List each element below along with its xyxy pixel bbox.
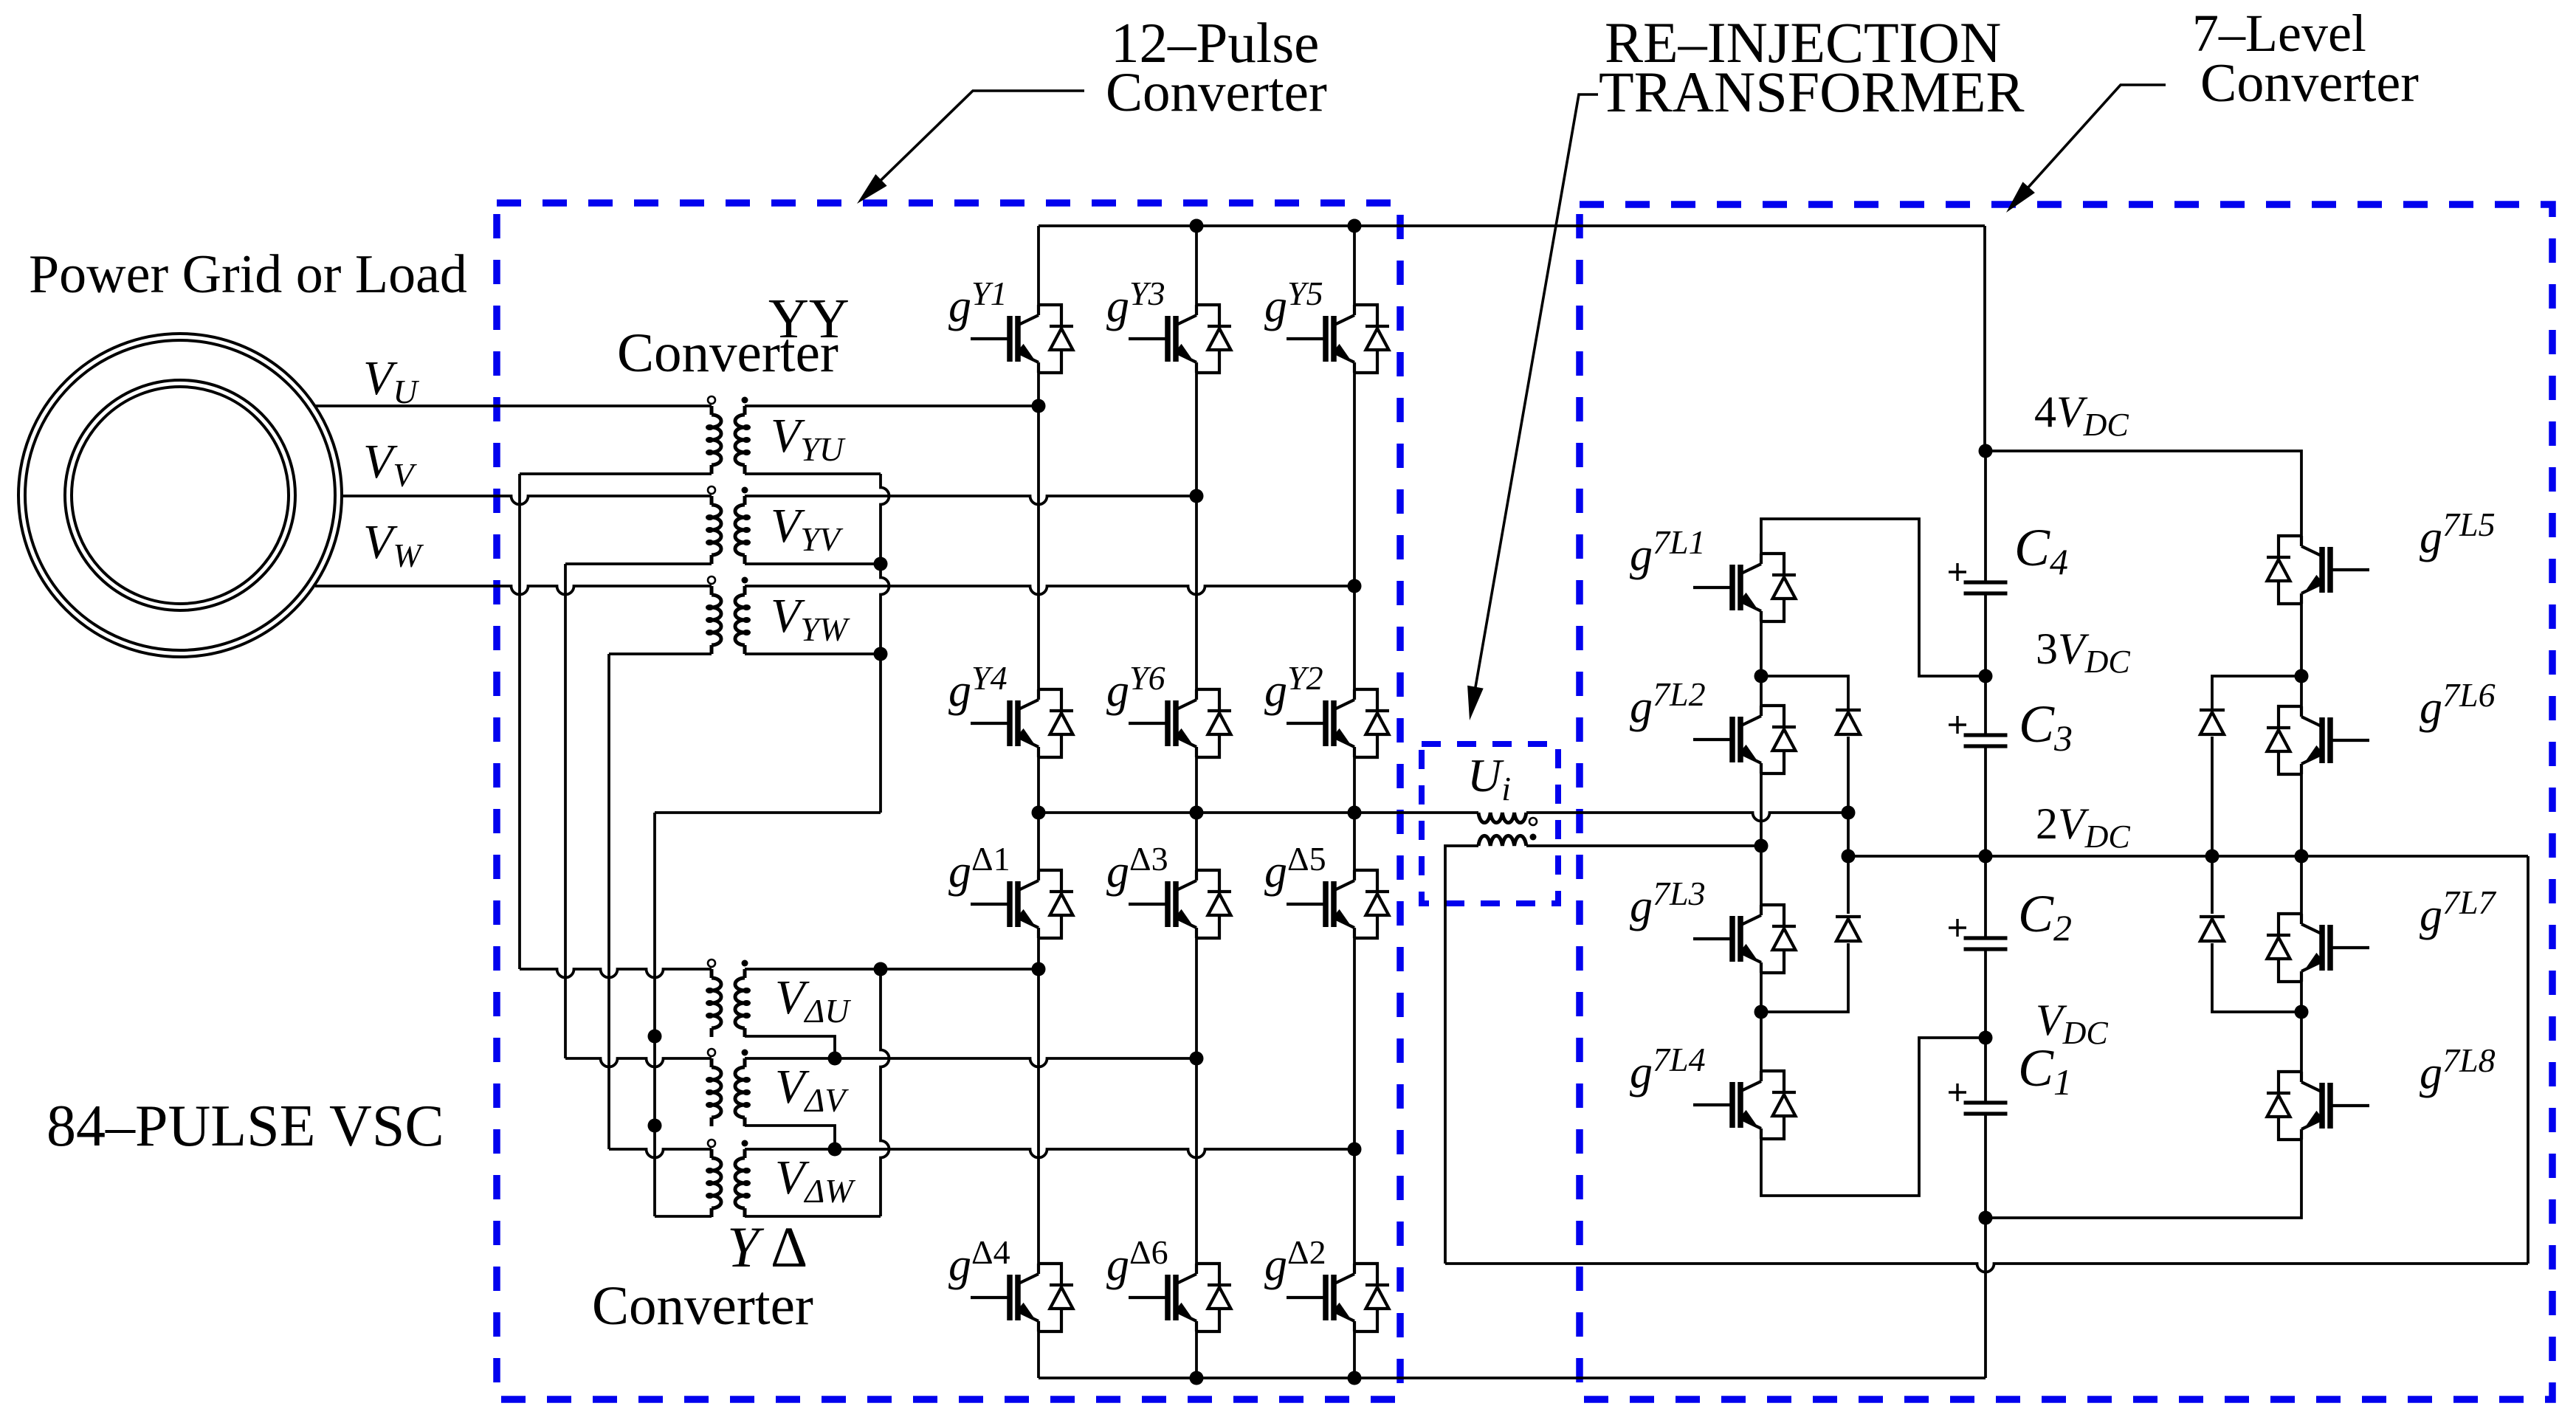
label: Y-Delta <box>727 1215 807 1279</box>
label: V_W <box>363 515 424 574</box>
label: V_YU <box>771 409 846 468</box>
wire VDW primary bottom from neutral <box>655 1215 712 1218</box>
wire re-injection return y1712 (hops cap column x2690) <box>1445 1264 2528 1272</box>
wire 7L1 collector to 3VDC <box>1761 519 1986 676</box>
wire C4 to 3VDC <box>1984 593 1987 676</box>
label: g^7L5 <box>2420 506 2496 562</box>
wire T-YV primary bottom to riser x766 <box>565 562 712 565</box>
wire VDU secondary bottom to VDV top <box>745 1036 835 1058</box>
wire riser x704 (U phase feed to YD) <box>518 474 521 969</box>
label: g^7L4 <box>1630 1041 1706 1098</box>
label: g^Y2 <box>1264 659 1323 716</box>
transistor gD2 (IGBT) <box>1287 1264 1389 1331</box>
svg-text:Converter: Converter <box>1106 62 1327 123</box>
label: g^7L1 <box>1630 523 1706 580</box>
node: delta corner U-V <box>828 1052 842 1066</box>
wire 7L1-7L2 junction column <box>1760 621 1763 706</box>
wire 7L7 emitter to 7L8 <box>2300 982 2303 1072</box>
wire VU phase line y=550 <box>315 404 712 407</box>
label: U_i <box>1467 749 1511 807</box>
transistor g7L7 (IGBT mirrored) <box>2267 914 2369 982</box>
transformer T-YW (YY converter phase W) <box>706 576 751 654</box>
label: TRANSFORMER <box>1599 60 2024 124</box>
transistor gD3 (IGBT) <box>1129 870 1231 938</box>
leader arrow to 12-pulse box <box>857 91 1084 204</box>
transformer T-YU (YY converter phase U) <box>706 396 751 474</box>
node: 7L5/7L6 junction <box>2295 669 2309 683</box>
transistor g7L6 (IGBT mirrored) <box>2267 706 2369 774</box>
transistor gD6 (IGBT) <box>1129 1264 1231 1331</box>
wire Ui secondary right to 7L2 emitter node <box>1526 844 1761 847</box>
transformer T-DW (YD converter phase W) <box>706 1140 751 1217</box>
node: 2VDC at right IGBT chain <box>2295 850 2309 864</box>
wire 7L3 emitter to 7L4 collector <box>1760 973 1763 1071</box>
node: neutral joins T-YV secondary bottom <box>874 557 888 571</box>
wire diode chain to 7L3/7L4 junction <box>1761 943 1848 1012</box>
transistor g7L3 (IGBT) <box>1693 905 1796 973</box>
label: RE-INJECTION <box>1605 10 2001 75</box>
wire YD primary neutral x887 <box>653 813 656 1216</box>
transistor gD4 (IGBT) <box>971 1264 1073 1331</box>
label: YY <box>768 288 850 350</box>
node: Y leg5 phase node <box>1348 579 1362 593</box>
svg-text:Power Grid or Load: Power Grid or Load <box>29 244 467 305</box>
wire 7L5 emitter to junction <box>2300 604 2303 706</box>
svg-text:84–PULSE VSC: 84–PULSE VSC <box>47 1094 444 1159</box>
label: V_YV <box>771 499 844 558</box>
wire D phase W to leg5 (y1557, hops x1407,x1621) <box>745 1149 1354 1158</box>
transistor gY2 (IGBT) <box>1287 689 1389 757</box>
converter block box: 12-Pulse Converter (blue dashed) <box>497 203 1400 1399</box>
label: Power Grid or Load <box>29 244 467 305</box>
node: 7L3/7L4 junction <box>1754 1005 1769 1019</box>
leader arrow to Ui box <box>1467 94 1598 720</box>
label: Converter (YY) <box>617 323 838 384</box>
wire VDC to C1 <box>1984 1038 1987 1103</box>
transformer T-DU (YD converter phase U) <box>706 959 751 1037</box>
wire C3 to 2VDC <box>1984 746 1987 856</box>
re-injection transformer Ui primary coil <box>1478 813 1526 823</box>
wire 3VDC to C3 <box>1984 676 1987 735</box>
wire C1 to bottom node <box>1984 1114 1987 1218</box>
diode DR1 (upper right clamp diode) <box>2200 710 2225 734</box>
transistor gY5 (IGBT) <box>1287 305 1389 373</box>
capacitor C1 <box>1964 1103 2008 1114</box>
label: 84-PULSE VSC <box>47 1094 444 1159</box>
converter block box: 7-Level Converter (blue dashed) <box>1580 204 2552 1399</box>
wire top bus corner down to 4VDC <box>1983 226 1986 451</box>
transistor g7L5 (IGBT mirrored) <box>2267 536 2369 604</box>
transistor g7L8 (IGBT mirrored) <box>2267 1072 2369 1140</box>
transformer T-DV (YD converter phase V) <box>706 1049 751 1126</box>
label: g^7L7 <box>2420 883 2497 940</box>
wire leg3 column lower <box>1195 813 1198 1378</box>
node: 3VDC node <box>1979 669 1993 683</box>
wire Y phase W to leg5 (y794, hops x1407,x1621) <box>745 586 1354 595</box>
node: Ui primary at diode chain <box>1842 806 1856 820</box>
wire 4VDC to C4 <box>1984 451 1987 582</box>
transformer T-YV (YY converter phase V) <box>706 486 751 564</box>
node: top bus at leg5 <box>1348 219 1362 233</box>
power source: Power Grid or Load (machine symbol) <box>18 334 342 657</box>
label: g^D1 <box>948 840 1010 897</box>
label: g^7L3 <box>1630 875 1706 931</box>
wire neutral jog y1101 to x887 <box>655 811 881 814</box>
wire 12-pulse top DC bus y306 <box>1039 224 1985 227</box>
wire diode chain mid-left <box>1847 737 1850 914</box>
transistor g7L1 (IGBT) <box>1693 554 1796 621</box>
label: V_U <box>363 351 419 410</box>
label: g^7L6 <box>2420 676 2496 733</box>
node: D leg1 phase node <box>1032 962 1046 976</box>
wire VDV primary top (hops x825,x887) <box>565 1058 712 1067</box>
wire T-YV secondary bottom <box>745 562 881 565</box>
wire leg1 column upper <box>1037 226 1040 813</box>
label: g^Y1 <box>948 275 1008 331</box>
wire leg5 column upper <box>1353 226 1356 813</box>
label: g^7L8 <box>2420 1041 2496 1098</box>
wire 2VDC bus <box>1848 855 2528 858</box>
label: Converter (YD) <box>592 1275 813 1337</box>
wire D phase U to leg1 (y1313) <box>745 968 1039 971</box>
node: Ui primary polarity dot <box>1529 818 1537 825</box>
node: 7L1/7L2 junction <box>1754 669 1769 683</box>
wire riser x766 (V phase feed to YD) <box>564 564 567 1058</box>
capacitor C4 <box>1964 582 2008 593</box>
label: g^D3 <box>1106 840 1168 897</box>
wire riser x825 (W phase feed to YD) <box>607 654 610 1149</box>
node: VDC node <box>1979 1031 1993 1045</box>
wire VDW primary top (hops x887) <box>609 1149 712 1158</box>
label: + (C3 polarity) <box>1949 716 1966 734</box>
label: C_3 <box>2019 695 2073 759</box>
wire leg5 column lower <box>1353 813 1356 1378</box>
label: g^Y4 <box>948 659 1008 716</box>
wire leg3 column upper <box>1195 226 1198 813</box>
node: delta corner W-U <box>874 962 888 976</box>
wire 7L4 emitter to VDC jog <box>1761 1038 1986 1196</box>
label: 7-Level <box>2192 4 2366 63</box>
node: D leg3 phase node <box>1190 1052 1204 1066</box>
label: V_DV <box>775 1060 849 1119</box>
wire VDW secondary bottom riser to VDU top (hops y1434,y1557) <box>745 969 889 1216</box>
wire 4VDC to 7L5 collector <box>1986 451 2301 536</box>
node: mid bus at leg1 <box>1032 806 1046 820</box>
label: g^Y3 <box>1106 275 1165 331</box>
transistor gY3 (IGBT) <box>1129 305 1231 373</box>
wire 7L8 emitter to cap bottom <box>1986 1140 2301 1218</box>
transistor gD5 (IGBT) <box>1287 870 1389 938</box>
wire right diode chain to 7L7/7L8 junction <box>2212 943 2301 1012</box>
wire 2VDC to C2 <box>1984 856 1987 938</box>
wire T-YU secondary bottom to neutral riser <box>745 472 881 475</box>
label: g^D4 <box>948 1233 1010 1290</box>
label: V_DC <box>2036 996 2108 1051</box>
node: delta corner V-W <box>828 1143 842 1157</box>
node: 4VDC node <box>1979 444 1993 458</box>
label: g^Y5 <box>1264 275 1323 331</box>
node: 2VDC at right diode chain <box>2205 850 2219 864</box>
node: Y leg3 phase node <box>1190 489 1204 503</box>
wire right diode chain mid <box>2211 737 2214 914</box>
wire T-YW primary bottom to riser x825 <box>609 652 712 655</box>
capacitor C3 <box>1964 735 2008 746</box>
svg-text:Converter: Converter <box>2200 53 2419 114</box>
label: g^D2 <box>1264 1233 1326 1290</box>
label: V_YW <box>771 589 850 648</box>
wire C2 to VDC <box>1984 949 1987 1038</box>
label: Converter (7-level) <box>2200 53 2419 114</box>
wire 7L1/7L2 junction to diode chain <box>1761 676 1848 710</box>
transistor g7L4 (IGBT) <box>1693 1071 1796 1139</box>
label: C_1 <box>2018 1038 2072 1103</box>
transistor gY6 (IGBT) <box>1129 689 1231 757</box>
node: Ui secondary polarity dot <box>1530 834 1537 841</box>
transistor g7L2 (IGBT) <box>1693 706 1796 773</box>
wire YY secondary neutral riser x1193 (hops VYV,VYW wires) <box>881 474 889 813</box>
wire Y phase V to leg3 (y672, hops x1407) <box>745 496 1196 505</box>
node: mid bus at leg5 <box>1348 806 1362 820</box>
node: bottom bus at leg5 <box>1348 1371 1362 1385</box>
label: g^7L2 <box>1630 675 1706 732</box>
label: 12-Pulse <box>1111 11 1319 75</box>
label: 2V_DC <box>2036 799 2130 855</box>
wire Ui secondary left + descender x1958 <box>1445 846 1478 1264</box>
label: g^D6 <box>1106 1233 1168 1290</box>
wire 7L6 emitter to 2VDC <box>2300 774 2303 914</box>
label: V_DW <box>775 1151 855 1210</box>
node: cap string bottom node <box>1979 1211 1993 1225</box>
label: + (C4 polarity) <box>1949 563 1966 581</box>
diode DR2 (lower right clamp diode) <box>2200 917 2225 941</box>
node: D leg5 phase node <box>1348 1143 1362 1157</box>
node: YD primary neutral at VDU bottom <box>648 1030 662 1044</box>
node: Ui secondary at 7L chain <box>1754 839 1769 853</box>
label: + (C1 polarity) <box>1949 1083 1966 1101</box>
node: Y leg1 phase node <box>1032 399 1046 413</box>
capacitor C2 <box>1964 938 2008 949</box>
label: Converter (12-pulse) <box>1106 62 1327 123</box>
node: neutral joins T-YW secondary bottom <box>874 647 888 661</box>
node: mid bus at leg3 <box>1190 806 1204 820</box>
wire 12-pulse mid bus y1101 to Ui primary <box>1039 811 1478 814</box>
wire T-YU primary bottom to riser x704 <box>520 472 712 475</box>
label: V_DU <box>775 971 851 1030</box>
wire T-YW secondary bottom <box>745 652 881 655</box>
label: g^Y6 <box>1106 659 1165 716</box>
svg-text:Converter: Converter <box>592 1275 813 1337</box>
node: 7L7/7L8 junction <box>2295 1005 2309 1019</box>
svg-text:Y Δ: Y Δ <box>727 1215 807 1279</box>
wire cap bottom to 12-pulse bottom bus <box>1984 1218 1987 1378</box>
svg-text:Converter: Converter <box>617 323 838 384</box>
wire VDU primary top (hops x766,x825,x887) <box>520 969 712 978</box>
node: top bus at leg3 <box>1190 219 1204 233</box>
re-injection transformer box Ui (blue dashed) <box>1422 744 1558 903</box>
label: 3V_DC <box>2036 624 2130 680</box>
label: 4V_DC <box>2034 387 2129 443</box>
node: diode chain at 2VDC <box>1842 850 1856 864</box>
label: + (C2 polarity) <box>1949 919 1966 937</box>
label: g^D5 <box>1264 840 1326 897</box>
label: V_V <box>363 435 417 494</box>
wire 7L5/7L6 junction to right diode chain <box>2212 676 2301 710</box>
node: bottom bus at leg3 <box>1190 1371 1204 1385</box>
wire leg1 column lower <box>1037 813 1040 1378</box>
wire Ui primary right (hops 7L column x2386) <box>1526 813 1848 821</box>
label: C_4 <box>2014 518 2068 582</box>
transistor gY4 (IGBT) <box>971 689 1073 757</box>
node: 2VDC node <box>1979 850 1993 864</box>
wire re-injection return riser x3425 <box>2527 856 2529 1264</box>
wire VV phase line y=672 (hops riser x704) <box>342 496 712 505</box>
wire VW phase line y=794 (hops risers x704,x766) <box>315 586 712 595</box>
diode DL2 (lower left clamp diode) <box>1836 917 1861 941</box>
wire D phase V to leg3 (y1434, hops x1407) <box>745 1058 1196 1067</box>
wire 12-pulse bottom bus y1867 <box>1039 1377 1986 1379</box>
wire Y phase U to leg1 (y550) <box>745 404 1039 407</box>
transistor gY1 (IGBT) <box>971 305 1073 373</box>
label: C_2 <box>2018 884 2072 948</box>
leader arrow to 7-level box <box>2006 85 2166 213</box>
diode DL1 (upper left clamp diode) <box>1836 710 1861 734</box>
wire VDV secondary bottom to VDW top <box>745 1126 835 1149</box>
svg-text:TRANSFORMER: TRANSFORMER <box>1599 60 2024 124</box>
transistor gD1 (IGBT) <box>971 870 1073 938</box>
node: YD primary neutral at VDV bottom <box>648 1119 662 1133</box>
wire 7L2 emitter to 7L3 collector <box>1760 773 1763 905</box>
re-injection transformer Ui secondary coil <box>1478 835 1526 846</box>
